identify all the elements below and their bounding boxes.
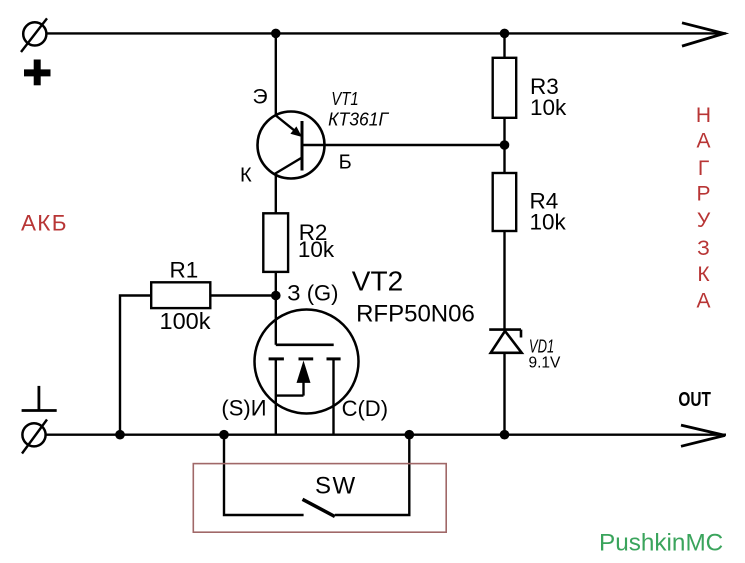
resistor R2 (263, 213, 288, 272)
wire R3 to R4 (503, 118, 505, 173)
svg-text:Б: Б (339, 152, 352, 174)
svg-text:З: З (697, 237, 710, 260)
resistor R1 (151, 282, 210, 308)
plus polarity symbol (24, 60, 51, 86)
svg-text:К: К (697, 263, 710, 286)
svg-text:R1: R1 (170, 257, 199, 282)
svg-text:(S)И: (S)И (221, 396, 266, 421)
junction node SW right (405, 430, 415, 440)
wire collector to R2 (275, 174, 277, 213)
svg-text:АКБ: АКБ (21, 211, 68, 236)
SW enclosure box (193, 464, 446, 533)
svg-text:RFP50N06: RFP50N06 (356, 301, 475, 328)
junction node VD1 bottom (500, 430, 510, 440)
junction node base R3 R4 (500, 140, 510, 150)
svg-text:З (G): З (G) (287, 281, 338, 306)
terminal X2 minus output (22, 420, 47, 454)
junction node top R3 (500, 29, 510, 39)
svg-text:100k: 100k (160, 308, 211, 334)
svg-text:SW: SW (315, 473, 357, 500)
svg-text:Э: Э (253, 86, 268, 109)
svg-text:VT1: VT1 (331, 89, 358, 109)
svg-text:OUT: OUT (678, 389, 711, 411)
svg-text:PushkinMC: PushkinMC (599, 530, 723, 557)
junction node R1 bottom (115, 430, 125, 440)
wire R1 right to gate (210, 294, 275, 296)
svg-text:10k: 10k (530, 209, 567, 234)
wire R2 to gate node (275, 272, 277, 296)
svg-text:10k: 10k (530, 95, 567, 120)
svg-text:VT2: VT2 (352, 265, 403, 296)
wire bottom rail (46, 434, 726, 436)
junction node SW left (219, 430, 229, 440)
resistor R4 (493, 173, 517, 231)
svg-text:9.1V: 9.1V (529, 354, 562, 371)
ground symbol (22, 386, 57, 411)
label NAGRUZKA load vertical (696, 104, 711, 313)
svg-text:А: А (696, 290, 710, 313)
svg-text:КТ361Г: КТ361Г (328, 109, 389, 129)
svg-text:К: К (240, 165, 252, 187)
arrow top rail (682, 23, 724, 46)
svg-text:C(D): C(D) (342, 396, 388, 421)
terminal X1 plus input (21, 18, 47, 52)
wire R4 to VD1 (503, 231, 505, 330)
wire emitter drop (275, 33, 277, 116)
resistor R3 (493, 58, 517, 118)
junction node gate (271, 291, 281, 301)
svg-text:А: А (696, 130, 710, 153)
svg-text:У: У (697, 209, 711, 232)
svg-text:VD1: VD1 (529, 336, 554, 357)
wire top rail (46, 32, 726, 34)
svg-text:10k: 10k (298, 237, 335, 262)
wire VD1 to bottom rail (503, 353, 505, 435)
arrow bottom rail OUT (681, 425, 725, 446)
zener diode VD1 (489, 330, 522, 353)
svg-text:Р: Р (696, 183, 710, 206)
wire base VT1 (303, 144, 505, 146)
svg-text:Г: Г (698, 157, 709, 180)
mosfet VT2 (255, 296, 359, 435)
transistor VT1 (258, 112, 325, 179)
wire R3 top (503, 33, 505, 57)
wire R1 left (120, 296, 151, 435)
switch SW (224, 435, 409, 517)
svg-text:Н: Н (696, 104, 711, 127)
junction node top emitter (271, 29, 281, 39)
